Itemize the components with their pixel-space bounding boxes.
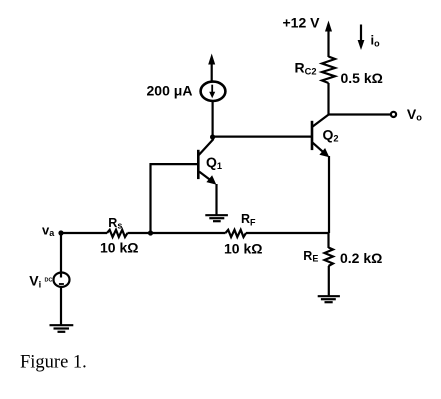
svg-text:io: io — [371, 33, 381, 49]
svg-text:200 μA: 200 μA — [147, 83, 193, 99]
svg-text:0.2 kΩ: 0.2 kΩ — [340, 250, 382, 266]
resistor RF — [226, 230, 247, 237]
wire Q1 base down to bottom node — [149, 163, 151, 233]
wire RF to emitter node — [246, 232, 329, 234]
wire current source to node A — [212, 101, 214, 137]
node A junction dot — [210, 134, 215, 139]
source Vi — [54, 273, 70, 287]
ground (Vi) — [50, 325, 74, 332]
terminal Vo (open circle) — [391, 112, 396, 117]
svg-text:Figure 1.: Figure 1. — [20, 353, 87, 373]
svg-text:10 kΩ: 10 kΩ — [224, 240, 262, 256]
wire Q1 emitter to ground — [215, 184, 217, 215]
transistor Q2 — [312, 114, 329, 157]
wire emitter node to RE — [327, 233, 329, 248]
ground (Q1 emitter) — [205, 215, 228, 221]
resistor RC2 — [322, 57, 335, 84]
output current io arrow — [358, 25, 365, 51]
resistor Rs — [107, 230, 128, 237]
wire junction to RF — [151, 232, 226, 234]
junction dot (Rs/RF/Q1 base) — [148, 230, 153, 235]
current source I1 200uA — [201, 82, 226, 101]
svg-text:Q1: Q1 — [206, 154, 222, 171]
power arrow above current source — [208, 54, 215, 82]
wire node A to Q2 base — [213, 136, 312, 138]
svg-text:va: va — [42, 222, 55, 238]
wire Q1 base horizontal — [150, 163, 199, 165]
wire RE to ground — [328, 266, 330, 296]
svg-text:DC: DC — [45, 278, 53, 284]
wire Vi to ground — [60, 287, 62, 325]
ground (RE) — [318, 296, 340, 302]
svg-text:Vo: Vo — [407, 106, 422, 123]
svg-text:0.5 kΩ: 0.5 kΩ — [341, 70, 383, 86]
node va dot — [58, 230, 63, 235]
resistor RE — [325, 248, 334, 267]
wire va to Vi source — [60, 233, 62, 278]
svg-text:+12 V: +12 V — [283, 14, 321, 30]
power +12V arrow — [325, 21, 332, 58]
svg-text:Q2: Q2 — [323, 127, 339, 144]
wire Rs to junction — [128, 232, 151, 234]
wire Q2 emitter down to node — [328, 156, 330, 233]
wire RC2 to Q2 collector node — [327, 83, 329, 116]
svg-text:RC2: RC2 — [295, 60, 317, 77]
svg-text:RE: RE — [303, 249, 318, 264]
wire collector node to Vo terminal — [329, 113, 391, 115]
svg-text:Rs: Rs — [108, 216, 122, 231]
svg-text:Vi: Vi — [29, 273, 41, 290]
transistor Q1 — [198, 139, 216, 185]
svg-text:RF: RF — [241, 212, 256, 228]
svg-text:10 kΩ: 10 kΩ — [100, 239, 138, 255]
wire va to Rs — [61, 232, 107, 234]
